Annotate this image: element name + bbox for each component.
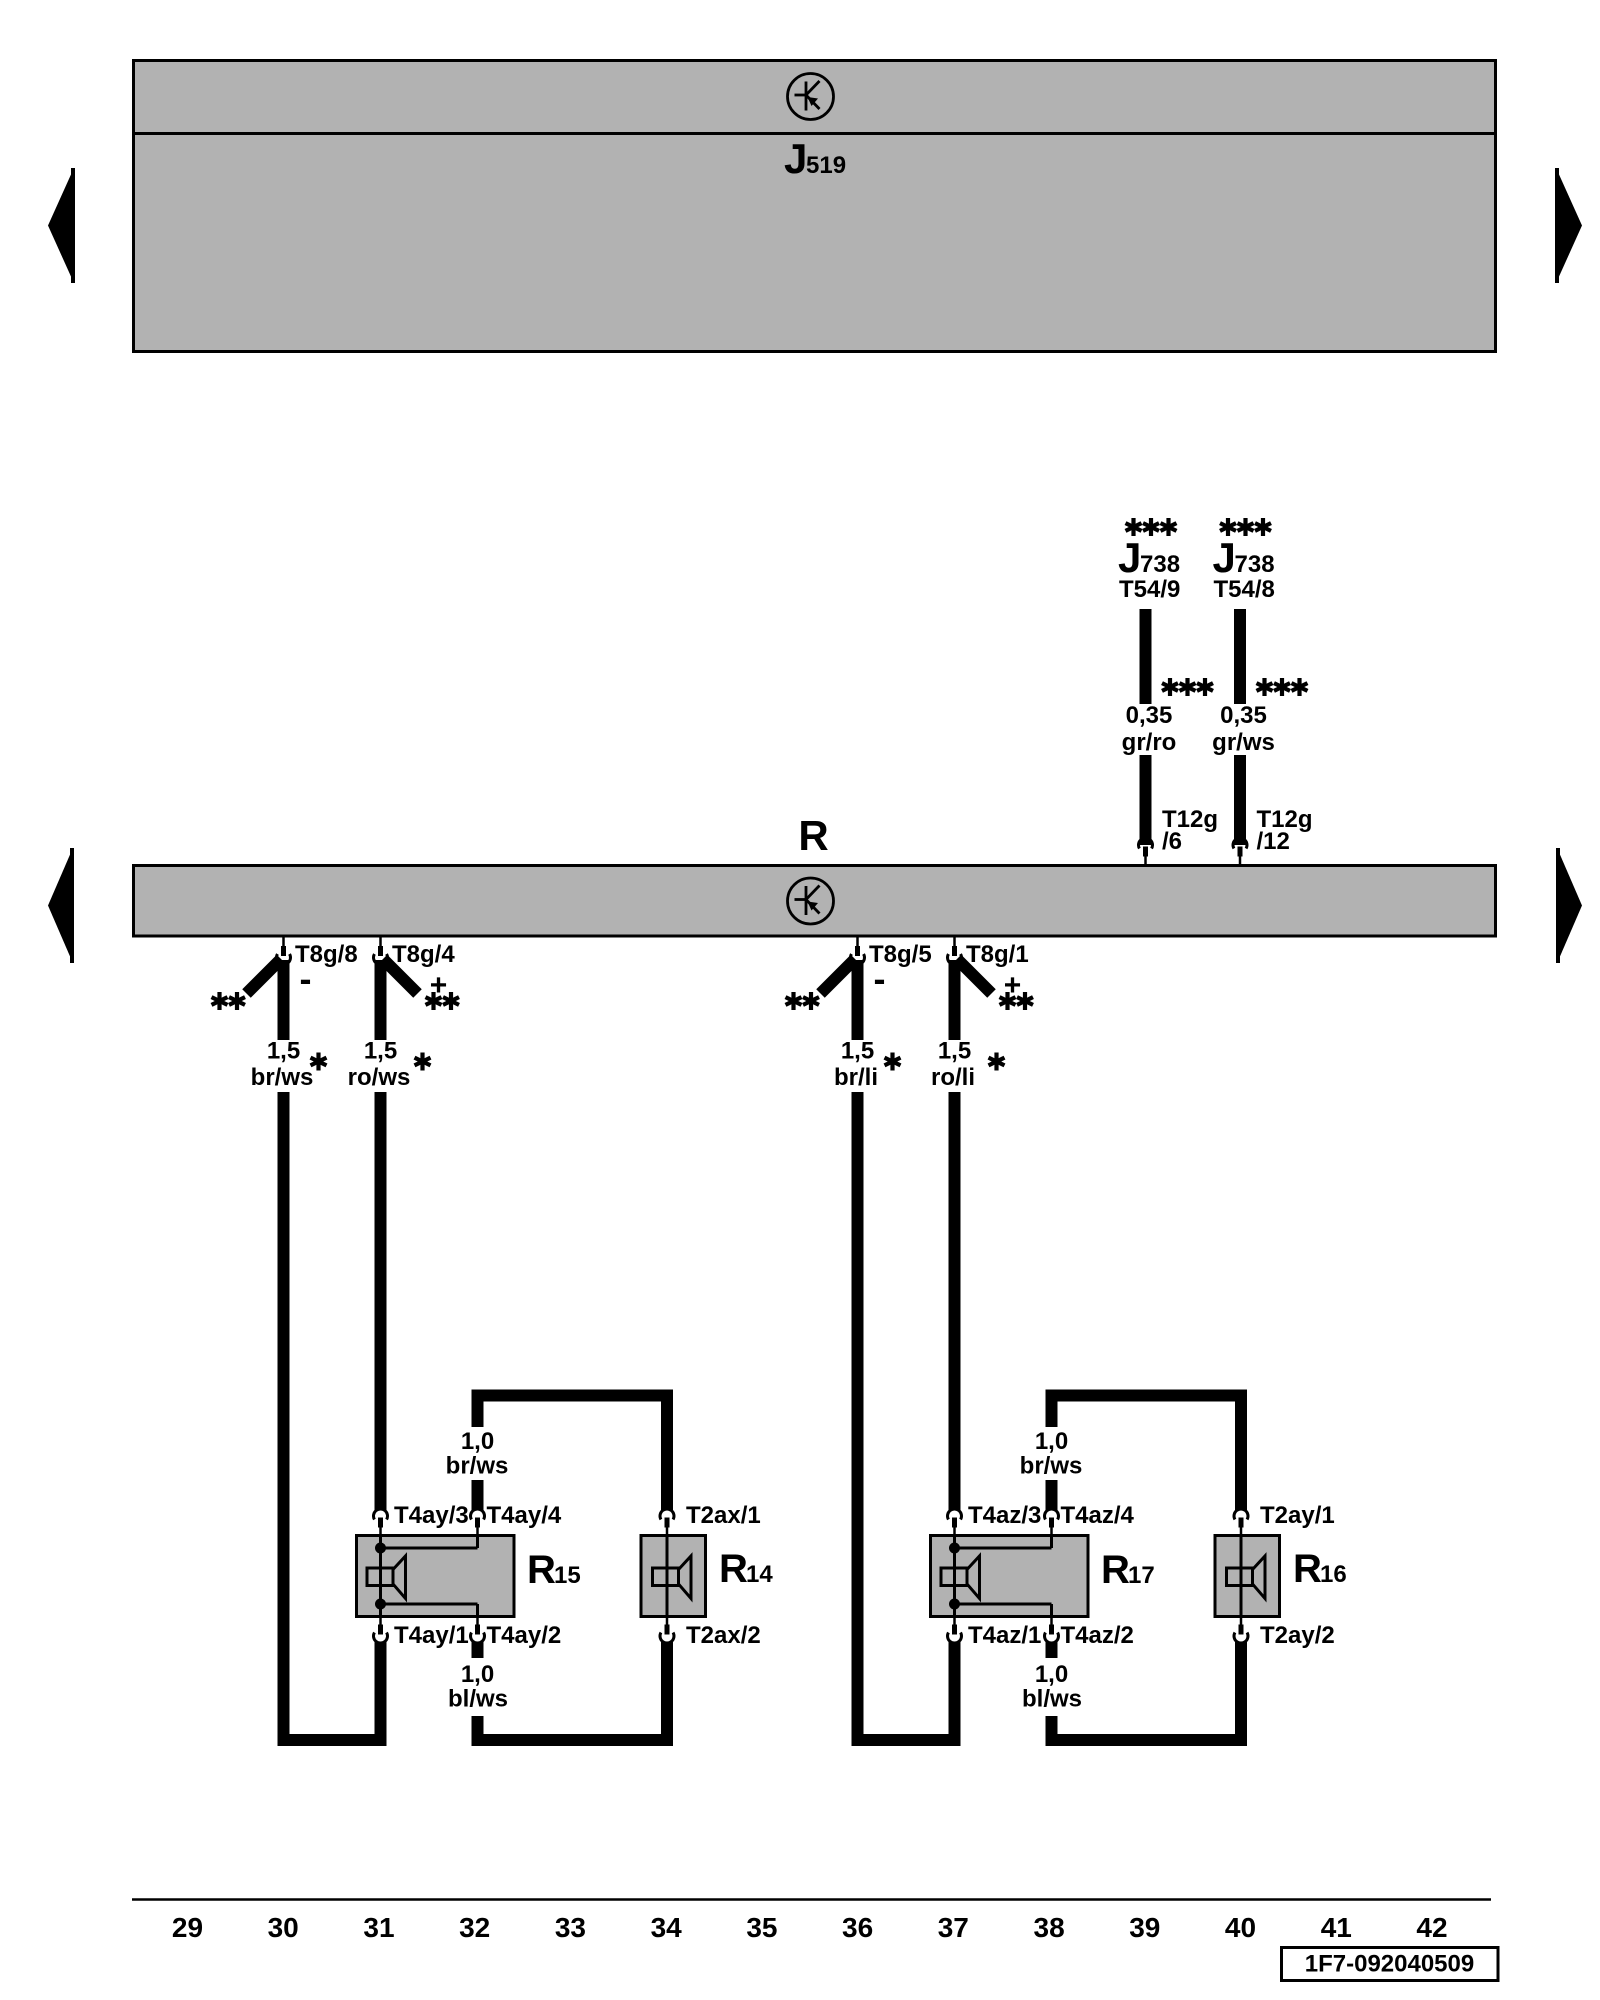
connector T2ax/2 xyxy=(660,1615,674,1644)
marker * (ro/ws) xyxy=(415,1053,431,1071)
wire 1,5 br/li (upper segment) xyxy=(852,960,864,1040)
marker *** (12 mid) xyxy=(1257,678,1308,696)
wire 0,35 gr/ws (upper segment) xyxy=(1234,609,1246,704)
connector T2ax/1 xyxy=(660,1509,674,1538)
svg-text:16: 16 xyxy=(1320,1561,1347,1588)
svg-text:34: 34 xyxy=(651,1912,683,1943)
connector T4ay/2 xyxy=(471,1615,485,1644)
svg-text:-: - xyxy=(874,958,886,999)
svg-text:1,5: 1,5 xyxy=(841,1038,874,1065)
svg-text:738: 738 xyxy=(1235,551,1275,578)
wire 0,35 gr/ro (lower segment) xyxy=(1140,755,1152,845)
wire 1,5 ro/ws (lower run to T4ay/3) xyxy=(375,1092,387,1510)
svg-text:T8g/1: T8g/1 xyxy=(966,941,1029,968)
svg-text:17: 17 xyxy=(1128,1562,1155,1589)
svg-text:J: J xyxy=(1118,534,1141,581)
R15 internal wiring xyxy=(375,1536,478,1617)
svg-text:J: J xyxy=(1213,534,1236,581)
wire 0,35 gr/ws (lower segment) xyxy=(1234,755,1246,845)
svg-text:37: 37 xyxy=(938,1912,969,1943)
wire 1,5 br/ws (lower run to T4ay/1) xyxy=(284,1092,381,1740)
radio R bus bar xyxy=(134,866,1496,937)
label polarity - (T8g/5) xyxy=(874,958,886,999)
R16 internal wiring xyxy=(1240,1536,1243,1617)
wire 1,5 ro/ws (upper segment) xyxy=(375,960,387,1040)
label 1,5 br/ws xyxy=(251,1038,314,1092)
wire 1,0 br/ws (T4ay/4 segment) xyxy=(472,1480,484,1510)
wire 1,0 bl/ws (run to T2ay/2) xyxy=(1052,1642,1242,1741)
wire 1,5 ro/li (lower run to T4az/3) xyxy=(949,1092,961,1510)
svg-text:R: R xyxy=(527,1548,556,1592)
wire 1,5 br/li (lower run to T4az/1) xyxy=(858,1092,955,1740)
svg-text:15: 15 xyxy=(554,1562,581,1589)
marker *** (6 mid) xyxy=(1162,678,1213,696)
svg-text:29: 29 xyxy=(172,1912,203,1943)
svg-text:1,0: 1,0 xyxy=(461,1428,494,1455)
label T8g/5 xyxy=(869,941,932,968)
wire 1,5 br/ws (upper segment) xyxy=(278,960,290,1040)
R17 internal wiring xyxy=(949,1536,1052,1617)
marker ** (T8g/1) xyxy=(1000,992,1034,1010)
speaker symbol (R17) xyxy=(941,1556,980,1599)
label T2ay/2 xyxy=(1260,1622,1335,1649)
marker ** (T8g/4) xyxy=(426,992,460,1010)
svg-text:gr/ro: gr/ro xyxy=(1122,729,1177,756)
svg-text:1,0: 1,0 xyxy=(1035,1661,1068,1688)
label T4az/4 xyxy=(1061,1502,1135,1529)
connector T2ay/2 xyxy=(1234,1615,1248,1644)
marker *** (J738 12 top) xyxy=(1220,518,1271,536)
svg-text:/12: /12 xyxy=(1257,828,1290,855)
marker * (ro/li) xyxy=(989,1053,1005,1071)
label T8g/1 xyxy=(966,941,1029,968)
speaker R14 box xyxy=(641,1536,706,1617)
label R14 xyxy=(719,1547,773,1591)
svg-text:T4az/2: T4az/2 xyxy=(1061,1622,1134,1649)
svg-text:bl/ws: bl/ws xyxy=(448,1686,508,1713)
grid baseline xyxy=(132,1898,1491,1901)
svg-text:T8g/4: T8g/4 xyxy=(392,941,455,968)
svg-text:1,5: 1,5 xyxy=(938,1038,971,1065)
arrow right (middle) xyxy=(1558,848,1582,963)
wire 0,35 gr/ro (upper segment) xyxy=(1140,609,1152,704)
connector T2ay/1 xyxy=(1234,1509,1248,1538)
arrow left (middle) xyxy=(48,848,72,963)
label T2ax/2 xyxy=(686,1622,761,1649)
svg-text:1,0: 1,0 xyxy=(1035,1428,1068,1455)
connector T12g/12 xyxy=(1233,838,1247,867)
svg-text:T2ax/1: T2ax/1 xyxy=(686,1502,761,1529)
twisted-pair stub (T8g/1) xyxy=(957,959,992,994)
reference number box xyxy=(1282,1948,1499,1981)
label polarity + (T8g/4) xyxy=(430,969,448,1002)
control unit J519 bus bar xyxy=(132,61,1497,352)
twisted-pair stub (T8g/8) xyxy=(247,959,282,994)
svg-text:35: 35 xyxy=(746,1912,777,1943)
wire 1,0 bl/ws (T4az/2 segment) xyxy=(1046,1642,1058,1659)
svg-text:T4az/3: T4az/3 xyxy=(968,1502,1041,1529)
speaker symbol (R14) xyxy=(653,1556,692,1599)
svg-text:T2ay/2: T2ay/2 xyxy=(1260,1622,1335,1649)
label T12g/12 xyxy=(1257,806,1313,855)
connector T4az/3 xyxy=(947,1509,961,1538)
label T4ay/2 xyxy=(487,1622,562,1649)
svg-text:R: R xyxy=(719,1547,748,1591)
label polarity + (T8g/1) xyxy=(1004,969,1022,1002)
label T2ax/1 xyxy=(686,1502,761,1529)
speaker R15 box xyxy=(357,1536,515,1617)
svg-text:bl/ws: bl/ws xyxy=(1022,1686,1082,1713)
connector T4az/1 xyxy=(947,1615,961,1644)
svg-text:33: 33 xyxy=(555,1912,586,1943)
svg-text:T4ay/4: T4ay/4 xyxy=(487,1502,562,1529)
connector T4ay/1 xyxy=(374,1615,388,1644)
svg-text:31: 31 xyxy=(363,1912,394,1943)
connector T4ay/4 xyxy=(471,1509,485,1538)
wire 1,0 br/ws (T4az/4 segment) xyxy=(1046,1480,1058,1510)
svg-text:1,0: 1,0 xyxy=(461,1661,494,1688)
label R16 xyxy=(1293,1547,1347,1591)
wire 1,5 ro/li (upper segment) xyxy=(949,960,961,1040)
svg-text:J: J xyxy=(784,135,807,182)
label T8g/8 xyxy=(295,941,358,968)
connector T4az/2 xyxy=(1045,1615,1059,1644)
svg-text:-: - xyxy=(300,958,312,999)
wire 1,0 br/ws (run to T2ay/1) xyxy=(1052,1396,1242,1511)
R14 internal wiring xyxy=(666,1536,669,1617)
marker ** (T8g/5) xyxy=(786,992,820,1010)
label T4ay/3 xyxy=(394,1502,469,1529)
svg-text:T2ax/2: T2ax/2 xyxy=(686,1622,761,1649)
label 0,35 gr/ro xyxy=(1122,702,1177,756)
label T4az/3 xyxy=(968,1502,1041,1529)
connector T4az/4 xyxy=(1045,1509,1059,1538)
svg-text:T4ay/1: T4ay/1 xyxy=(394,1622,469,1649)
connector T8g/5 xyxy=(851,936,865,965)
connector T12g/6 xyxy=(1139,838,1153,867)
svg-text:39: 39 xyxy=(1129,1912,1160,1943)
label 1,5 br/li xyxy=(834,1038,878,1092)
wire 1,0 br/ws (run to T2ax/1) xyxy=(478,1396,668,1511)
svg-text:14: 14 xyxy=(746,1561,773,1588)
svg-text:36: 36 xyxy=(842,1912,873,1943)
marker ** (T8g/8) xyxy=(212,992,246,1010)
label T4az/1 xyxy=(968,1622,1041,1649)
twisted-pair stub (T8g/4) xyxy=(383,959,418,994)
svg-text:/6: /6 xyxy=(1162,828,1182,855)
svg-text:40: 40 xyxy=(1225,1912,1256,1943)
marker * (br/ws) xyxy=(311,1053,327,1071)
label 1,5 ro/ws xyxy=(348,1038,411,1092)
label J519 xyxy=(784,135,846,182)
svg-text:T4ay/2: T4ay/2 xyxy=(487,1622,562,1649)
label T8g/4 xyxy=(392,941,455,968)
label 1,0 br/ws (R17) xyxy=(1020,1428,1083,1480)
svg-text:1,5: 1,5 xyxy=(364,1038,397,1065)
svg-text:br/ws: br/ws xyxy=(251,1064,314,1091)
svg-text:30: 30 xyxy=(268,1912,299,1943)
svg-text:R: R xyxy=(1101,1548,1130,1592)
wire 1,0 bl/ws (run to T2ax/2) xyxy=(478,1642,668,1741)
marker * (br/li) xyxy=(885,1053,901,1071)
svg-text:738: 738 xyxy=(1140,551,1180,578)
marker *** (J738 6 top) xyxy=(1126,518,1177,536)
grid numbers 29-42 xyxy=(172,1912,1448,1943)
svg-text:br/ws: br/ws xyxy=(446,1453,509,1480)
svg-text:br/li: br/li xyxy=(834,1064,878,1091)
svg-text:T54/9: T54/9 xyxy=(1119,576,1180,603)
label T12g/6 xyxy=(1162,806,1218,855)
label T4ay/1 xyxy=(394,1622,469,1649)
label T4ay/4 xyxy=(487,1502,562,1529)
svg-text:T54/8: T54/8 xyxy=(1214,576,1275,603)
connector T8g/4 xyxy=(374,936,388,965)
svg-text:ro/ws: ro/ws xyxy=(348,1064,411,1091)
svg-text:R: R xyxy=(1293,1547,1322,1591)
arrow right (top) xyxy=(1557,168,1582,283)
label 1,0 bl/ws (R17) xyxy=(1022,1661,1082,1713)
svg-text:32: 32 xyxy=(459,1912,490,1943)
label J738 T54/8 xyxy=(1213,534,1275,603)
label R xyxy=(798,812,828,859)
wire 1,0 bl/ws (T4ay/2 segment) xyxy=(472,1642,484,1659)
svg-text:519: 519 xyxy=(806,152,846,179)
label 0,35 gr/ws xyxy=(1212,702,1275,756)
svg-text:br/ws: br/ws xyxy=(1020,1453,1083,1480)
svg-text:R: R xyxy=(798,812,828,859)
label T4az/2 xyxy=(1061,1622,1134,1649)
label J738 T54/9 xyxy=(1118,534,1180,603)
svg-text:ro/li: ro/li xyxy=(931,1064,975,1091)
label R15 xyxy=(527,1548,581,1592)
svg-text:+: + xyxy=(1004,969,1022,1002)
speaker symbol (R16) xyxy=(1227,1556,1266,1599)
svg-text:+: + xyxy=(430,969,448,1002)
speaker R16 box xyxy=(1215,1536,1280,1617)
svg-text:1F7-092040509: 1F7-092040509 xyxy=(1305,1951,1474,1978)
connector T8g/1 xyxy=(947,936,961,965)
connector T8g/8 xyxy=(276,936,290,965)
svg-text:41: 41 xyxy=(1321,1912,1352,1943)
svg-text:T4ay/3: T4ay/3 xyxy=(394,1502,469,1529)
twisted-pair stub (T8g/5) xyxy=(821,959,856,994)
svg-text:T2ay/1: T2ay/1 xyxy=(1260,1502,1335,1529)
label 1,0 br/ws (R15) xyxy=(446,1428,509,1480)
label 1,0 bl/ws (R15) xyxy=(448,1661,508,1713)
svg-text:0,35: 0,35 xyxy=(1220,702,1267,729)
svg-text:gr/ws: gr/ws xyxy=(1212,729,1275,756)
svg-text:T4az/4: T4az/4 xyxy=(1061,1502,1135,1529)
svg-text:1,5: 1,5 xyxy=(267,1038,300,1065)
label T2ay/1 xyxy=(1260,1502,1335,1529)
speaker symbol (R15) xyxy=(367,1556,406,1599)
connection symbol K (top bar) xyxy=(788,74,834,120)
connector T4ay/3 xyxy=(374,1509,388,1538)
speaker R17 box xyxy=(931,1536,1089,1617)
svg-text:38: 38 xyxy=(1034,1912,1065,1943)
svg-text:42: 42 xyxy=(1416,1912,1447,1943)
arrow left (top) xyxy=(48,168,73,283)
connection symbol K (R bar) xyxy=(788,878,834,924)
label 1,5 ro/li xyxy=(931,1038,975,1092)
label polarity - (T8g/8) xyxy=(300,958,312,999)
svg-text:T4az/1: T4az/1 xyxy=(968,1622,1041,1649)
label R17 xyxy=(1101,1548,1155,1592)
svg-text:0,35: 0,35 xyxy=(1126,702,1173,729)
